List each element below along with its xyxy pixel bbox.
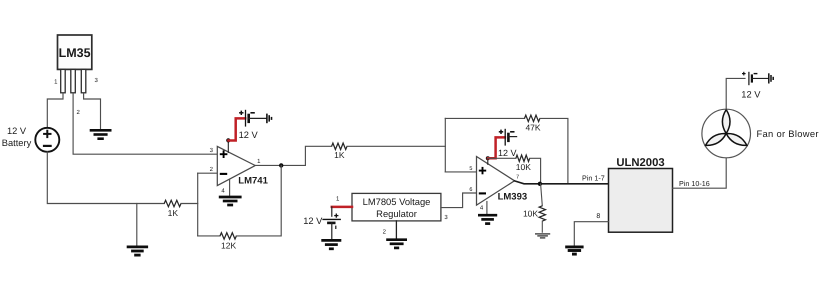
junction dot LM393 output (538, 182, 542, 186)
svg-text:LM741: LM741 (238, 175, 268, 186)
svg-text:12 V: 12 V (303, 216, 323, 226)
sensor U1 LM35 pin 2 lead (71, 69, 76, 92)
ground (ULN2003 pin8) (565, 247, 583, 254)
svg-text:Battery: Battery (2, 138, 32, 148)
wire 12K feedback left (198, 235, 220, 237)
wire to LM741 -input (198, 172, 218, 174)
sensor U1 LM35 pin 3 lead (81, 69, 86, 92)
svg-text:5: 5 (469, 166, 472, 172)
comparator U4 LM393 triangle (477, 157, 515, 206)
pin label 3 (LM741 +in) (210, 147, 214, 154)
ground (LM35 pin3) (90, 130, 112, 138)
svg-text:Pin 1-7: Pin 1-7 (582, 174, 605, 183)
wire 12K feedback right (236, 165, 281, 236)
wire LM393 V+ to R5 (488, 157, 516, 159)
svg-text:10K: 10K (516, 162, 531, 172)
resistor R6 10K (vertical) (523, 206, 546, 221)
svg-text:12K: 12K (221, 240, 236, 250)
wire battery V1 minus to bottom rail (47, 152, 164, 204)
wire LM7805 pin2 to ground (395, 221, 397, 238)
pin label 1 (LM35) (54, 79, 58, 86)
wire LM7805 pin3 to LM393 -input (441, 193, 477, 208)
ground (battery B5, sideways) (769, 73, 773, 83)
pin label 2 (LM741 -in) (210, 166, 214, 173)
junction dot LM741 output (279, 163, 283, 167)
pin label 2 (LM7805) (383, 229, 387, 236)
ground (LM741 pin4) (219, 197, 242, 205)
label Battery (V1) (2, 138, 32, 148)
label 12 V (B4) (303, 216, 323, 226)
svg-text:LM35: LM35 (59, 46, 91, 60)
resistor R4 47K (525, 115, 541, 132)
wire LM35 pin2 to LM741 +input (node A) (73, 93, 217, 154)
svg-text:LM393: LM393 (498, 191, 528, 202)
wire LM741 V+ pin stub (227, 141, 229, 153)
wire battery B5 to ground (752, 77, 768, 79)
wire LM741 output (255, 146, 331, 165)
wire battery B4 top (331, 207, 333, 216)
resistor R3 1K (332, 143, 347, 160)
pin label 4 (LM393) (480, 205, 484, 212)
svg-text:8: 8 (596, 213, 600, 220)
ground (LM7805 pin2) (386, 240, 407, 248)
wire ground stub on bottom rail (136, 204, 138, 246)
battery B2 12V (LM741 supply) (239, 110, 255, 127)
battery B5 12V (fan supply) (742, 72, 757, 85)
pin label 6 (LM393 -in) (469, 187, 472, 193)
battery V1 12V source circle (35, 128, 59, 152)
wire 47K top left (445, 117, 524, 119)
pin label 8 (ULN2003) (596, 213, 600, 220)
label 12 V (battery V1) (7, 126, 27, 136)
op-amp U2 LM741 triangle (217, 146, 255, 185)
label LM741 (238, 175, 268, 186)
wire 12V supply to LM393 (red) (488, 137, 505, 158)
svg-text:7: 7 (516, 174, 519, 180)
wire ULN2003 pin8 to ground (574, 222, 608, 245)
svg-text:12 V: 12 V (7, 126, 27, 136)
wire R5 to output node (530, 158, 541, 184)
wire battery B2 to ground (249, 117, 266, 119)
wire LM35 pin1 to battery V1 (47, 93, 63, 128)
svg-text:1K: 1K (334, 150, 345, 160)
svg-text:LM7805 Voltage: LM7805 Voltage (363, 196, 431, 207)
wire battery B4 to ground (331, 223, 333, 239)
pin label 1 (LM7805) (336, 196, 340, 203)
ground (battery B2, sideways) (267, 114, 272, 124)
fan M1 Fan or Blower circle (702, 109, 751, 158)
pin label 3 (LM7805) (444, 214, 448, 221)
svg-text:12 V: 12 V (741, 90, 761, 100)
wire R1 to inverting node (181, 203, 198, 205)
resistor R5 10K (516, 155, 531, 172)
wire node B to LM393 +input (445, 171, 476, 173)
wire R6 to ground (541, 221, 543, 232)
regulator U3 LM7805 box (352, 193, 441, 221)
pin label 3 (LM35) (95, 77, 99, 84)
wire R3 to node B (347, 145, 445, 147)
ground (LM393 pin4) (478, 215, 497, 223)
sensor U1 LM35 body (58, 35, 92, 69)
battery B4 12V (LM7805 supply, vertical) (322, 214, 341, 230)
pin label 7 (LM393 out) (516, 174, 519, 180)
driver U5 ULN2003 box (609, 169, 673, 233)
svg-text:10K: 10K (523, 209, 538, 219)
svg-text:Pin 10-16: Pin 10-16 (679, 179, 710, 188)
label 12 V (B2) (239, 130, 259, 140)
label 12 V (B3) (498, 148, 517, 158)
resistor R1 1K (164, 200, 181, 218)
wire LM741 pin4 to ground (229, 179, 231, 195)
svg-text:47K: 47K (525, 123, 540, 133)
ground (R6, small) (535, 234, 550, 238)
label Fan or Blower (757, 128, 819, 139)
wire output to R6 (541, 184, 543, 206)
pin label 4 (LM741) (221, 187, 225, 194)
wire LM393 pin4 to ground (486, 202, 488, 214)
label Pin 10-16 (679, 179, 710, 188)
wire 12V to LM7805 pin1 (red) (332, 206, 352, 209)
pin label 1 (LM741 out) (257, 158, 261, 165)
wire LM393 output to ULN2003 (515, 181, 609, 184)
svg-text:1K: 1K (168, 208, 179, 218)
sensor U1 LM35 pin 1 lead (61, 69, 65, 92)
wire LM35 pin3 to ground (84, 93, 101, 130)
svg-text:12 V: 12 V (498, 148, 517, 158)
svg-text:12 V: 12 V (239, 130, 259, 140)
pin label 2 (LM35) (77, 109, 81, 116)
wire fan top to battery B5 (726, 78, 745, 109)
wire ULN2003 output to fan (673, 158, 727, 188)
svg-text:ULN2003: ULN2003 (616, 157, 664, 169)
wire inverting node vertical (197, 173, 199, 236)
svg-text:Regulator: Regulator (376, 208, 417, 219)
label Pin 1-7 (582, 174, 605, 183)
wire battery B3 right stub (509, 136, 517, 138)
resistor R2 12K (220, 233, 236, 251)
label 12 V (B5) (741, 90, 761, 100)
battery B3 12V (LM393 supply) (499, 129, 515, 146)
ground (bottom rail) (127, 247, 148, 255)
junction dot LM393 V+ (486, 156, 490, 160)
svg-text:Fan or Blower: Fan or Blower (757, 128, 819, 139)
wire 47K to LM393 output (540, 118, 568, 183)
wire 12V supply to LM741 (red) (229, 118, 246, 140)
junction dot LM741 V+ (226, 138, 230, 142)
label LM393 (498, 191, 528, 202)
label ULN2003 (616, 157, 664, 169)
svg-text:6: 6 (469, 187, 472, 193)
wire node B vertical (444, 118, 446, 171)
wire LM393 V+ pin stub (487, 158, 489, 164)
pin label 5 (LM393 +in) (469, 166, 472, 172)
ground (battery B4) (321, 240, 341, 248)
